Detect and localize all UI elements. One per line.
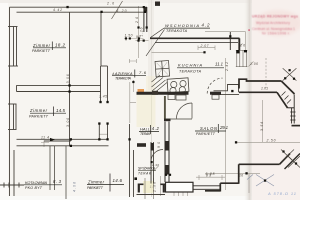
black square window bar left: [236, 50, 239, 53]
X column bottom right 2: [288, 156, 300, 168]
paper background: [0, 0, 300, 200]
door jambs hall verticals: [99, 124, 107, 140]
svg-text:PARKIETT: PARKIETT: [32, 49, 51, 53]
center wall pair top: [143, 7, 145, 32]
dim line top right: [205, 32, 245, 50]
dot cabinet line: [203, 51, 205, 53]
stepped wall B: [238, 164, 240, 184]
svg-text:TERAKOTA: TERAKOTA: [179, 69, 202, 73]
dot X top b: [293, 78, 295, 80]
dot corridor r b: [70, 145, 72, 147]
boiler room ticks: [41, 141, 49, 148]
door jamb right bottom: [163, 184, 165, 193]
svg-text:7.6: 7.6: [139, 70, 147, 75]
bay diagonal bottom upper: [280, 154, 291, 165]
kitchen door arc: [177, 103, 193, 119]
black square window bar right: [244, 50, 247, 52]
dot line B right: [144, 11, 146, 13]
svg-text:TERAK.: TERAK.: [140, 132, 151, 136]
dot jamb bl: [98, 138, 100, 140]
svg-text:11 4: 11 4: [41, 136, 49, 140]
dot room1 bottom b: [68, 90, 70, 92]
svg-text:PARKIETT: PARKIETT: [29, 114, 49, 118]
stepped wall C: [220, 182, 238, 184]
ticks under salon wall: [174, 193, 188, 197]
right page pinkish tint: [252, 0, 300, 200]
stepped wall A: [239, 163, 280, 165]
dot spiz: [134, 177, 137, 180]
closet mid tick: [99, 133, 107, 135]
door jamb right top tick: [161, 183, 166, 185]
svg-text:11.1: 11.1: [215, 62, 223, 67]
salon west wall: [165, 122, 169, 183]
kitchen door leaf: [191, 103, 193, 119]
dot jamb tr: [106, 122, 108, 124]
svg-text:16: 16: [240, 44, 245, 48]
left wall inner hatch lines: [14, 27, 17, 67]
dot salon wall b: [169, 174, 171, 176]
room1/2 dividing wall right: [69, 12, 71, 146]
svg-text:SPIŻARKA: SPIŻARKA: [138, 167, 156, 171]
dot pencil x: [264, 179, 266, 181]
kitchen door corner block: [164, 119, 171, 122]
svg-text:URZĄD REJONOWY wgs: URZĄD REJONOWY wgs: [252, 15, 298, 19]
boiler room label: [24, 179, 62, 190]
svg-text:18.2: 18.2: [55, 42, 66, 47]
svg-text:4.2: 4.2: [202, 22, 211, 27]
yellow wash door bottom: [143, 181, 154, 193]
svg-text:14.: 14.: [150, 185, 156, 189]
dot ext 27: [137, 26, 139, 28]
corridor wall lower: [17, 145, 109, 147]
svg-text:SALON: SALON: [200, 126, 217, 131]
svg-text:2.07: 2.07: [200, 44, 209, 48]
svg-text:HALL: HALL: [140, 127, 150, 132]
dot wall 27: [146, 26, 148, 28]
salon south wall outline: [166, 182, 194, 192]
svg-text:PARKIETT: PARKIETT: [196, 132, 216, 136]
dot wall 40: [143, 40, 145, 42]
dim cluster line 1.50: [124, 36, 144, 41]
hall/salon wall pair: [151, 142, 154, 184]
window bar top right verticals: [237, 50, 247, 67]
closet jog tick: [101, 65, 108, 67]
paper top band: [0, 0, 300, 3]
red speck: [248, 29, 250, 31]
door sill bottom: [137, 194, 166, 196]
paper left margin lighter: [0, 0, 8, 200]
kitchen doorway west wall: [164, 96, 166, 119]
svg-text:TERAKOTA: TERAKOTA: [115, 76, 132, 80]
svg-text:4.20: 4.20: [117, 9, 127, 13]
left window tick room2 bottom: [8, 129, 17, 131]
svg-text:3.54: 3.54: [260, 122, 264, 131]
salon west wall black fill 1: [165, 141, 169, 151]
dot wall top: [143, 6, 145, 8]
pencil tick bottom: [247, 175, 253, 180]
svg-text:Zimmer: Zimmer: [32, 43, 51, 48]
svg-text:16: 16: [239, 174, 243, 178]
kitchen door sill: [166, 118, 192, 120]
svg-text:PARKIETT: PARKIETT: [87, 186, 104, 190]
left window tick room2 top: [8, 103, 17, 105]
left window tick bottom: [8, 65, 18, 67]
left wall double lower: [13, 150, 15, 196]
paper bottom band: [0, 196, 300, 200]
yellow wash kitchen left: [146, 76, 155, 92]
wall corner vertical right: [238, 38, 240, 50]
svg-text:Nr 1584/1996 r.: Nr 1584/1996 r.: [262, 32, 290, 36]
top wall line B: [17, 11, 147, 13]
dot cluster a: [125, 37, 127, 39]
stove box: [167, 78, 189, 93]
dim vertical 3.54: [262, 100, 264, 142]
svg-text:2.50: 2.50: [266, 139, 276, 143]
hall wall black fill: [150, 143, 153, 151]
bay diagonal lower: [277, 92, 288, 108]
counter bar: [137, 92, 189, 95]
dim extension kitchen left: [130, 80, 134, 123]
closet wall lower vertical: [107, 66, 109, 102]
hall door black bar: [137, 143, 146, 147]
svg-text:4.42: 4.42: [53, 8, 62, 12]
stepped wall E: [205, 190, 220, 192]
svg-text:3.06: 3.06: [66, 74, 70, 83]
cabinet rect 3: [212, 95, 219, 99]
boiler room right wall: [65, 146, 67, 199]
hall label: [139, 125, 159, 136]
dim 4.20 diagonal: [112, 1, 127, 19]
svg-text:TERAKOTA: TERAKOTA: [166, 29, 188, 33]
svg-text:1.30: 1.30: [152, 163, 159, 167]
svg-text:4.06: 4.06: [72, 182, 76, 192]
dim line 3.88: [196, 175, 225, 180]
dot X bottom a: [282, 150, 284, 152]
dot jamb tl: [98, 122, 100, 124]
dim tick 1.00: [249, 62, 254, 67]
top wall line A: [10, 6, 148, 8]
dot closet a: [99, 101, 101, 103]
X column top right: [283, 68, 297, 80]
boiler room inner verticals: [50, 146, 55, 190]
svg-text:KUCHNIA: KUCHNIA: [178, 63, 202, 68]
bathroom dim tick: [129, 59, 136, 63]
svg-text:Wydział Architektury: Wydział Architektury: [256, 21, 290, 25]
room3 label Zimmer: [87, 174, 124, 192]
wall stub above window: [229, 32, 231, 50]
dim extension salon left: [159, 176, 161, 196]
dot line B left: [100, 11, 102, 13]
dot salon wall a: [165, 174, 167, 176]
salon label: [195, 124, 229, 136]
dot jamb br: [106, 138, 108, 140]
room2 label Zimmer: [29, 107, 66, 119]
svg-text:Centrum ul. Nowogrodzka 1: Centrum ul. Nowogrodzka 1: [252, 27, 295, 31]
svg-text:14.6: 14.6: [113, 178, 123, 183]
wall tick 40: [136, 40, 149, 42]
svg-text:89: 89: [206, 173, 211, 177]
pencil X bottom: [256, 175, 274, 187]
bay diagonal upper: [281, 81, 294, 94]
svg-text:90: 90: [136, 35, 141, 39]
boiler window ticks: [4, 183, 19, 188]
hall door arc: [151, 150, 163, 162]
fold shadow: [244, 0, 254, 200]
sink corner dark blob: [152, 91, 158, 95]
svg-text:Zimmer: Zimmer: [87, 179, 105, 184]
svg-text:4.2: 4.2: [152, 126, 160, 131]
room1 bottom wall upper: [17, 84, 101, 86]
larder diagonal hatch: [152, 75, 168, 92]
dot cluster b: [129, 37, 131, 39]
main top wall lower edge: [155, 42, 238, 44]
hall ext tick: [130, 102, 137, 104]
kitchen label: [177, 62, 224, 74]
window bar ticks: [236, 50, 248, 66]
bay window tick marks: [290, 112, 295, 120]
bay diagonal bottom lower: [285, 154, 301, 170]
bay notch: [288, 107, 294, 109]
salon west wall black fill 2: [165, 165, 169, 175]
dashed pantry line: [265, 58, 267, 88]
svg-text:14.5: 14.5: [56, 108, 66, 113]
svg-text:29.1: 29.1: [219, 125, 229, 130]
svg-text:1.00: 1.00: [250, 62, 258, 66]
small room thin verticals: [145, 178, 154, 199]
dot room1 bottom a: [68, 84, 70, 86]
svg-text:1.45: 1.45: [99, 94, 107, 98]
bay window hatch diagonals: [282, 92, 292, 104]
svg-text:A 578-D 11: A 578-D 11: [267, 191, 296, 196]
room1 bottom wall connector: [16, 85, 18, 91]
cabinet front line kitchen: [152, 51, 206, 53]
door jamb left bottom: [138, 184, 140, 193]
dot corridor r a: [70, 138, 72, 140]
svg-text:ŁAZIENKA: ŁAZIENKA: [113, 72, 133, 76]
door arrow triangle: [50, 138, 55, 141]
pantry label small: [138, 167, 156, 176]
dim extension line left of wall: [138, 6, 140, 58]
corridor wall upper: [17, 138, 109, 140]
north room label: [146, 22, 210, 56]
svg-text:PKO BYT: PKO BYT: [25, 186, 43, 190]
dot X bottom b: [295, 162, 297, 164]
fridge box: [155, 61, 170, 77]
dot ext 40: [137, 40, 139, 42]
cabinet rect 1: [168, 95, 175, 100]
hall east wall pair: [130, 124, 134, 197]
dim tick 16 top: [239, 44, 243, 48]
svg-text:2.42: 2.42: [225, 62, 229, 72]
room1 bottom wall lower: [17, 91, 101, 93]
dim vertical right salon: [225, 58, 227, 190]
svg-text:KOTŁOWNIA: KOTŁOWNIA: [25, 181, 47, 185]
top black wall stub rect: [155, 2, 160, 6]
dim line bottom right 89: [205, 172, 260, 174]
salon south window lines: [193, 186, 221, 190]
dim extension bottom right: [248, 174, 250, 193]
orange marker blob counter: [138, 89, 145, 92]
dot X top a: [289, 69, 291, 71]
bathroom label: [112, 70, 147, 81]
dot hall south: [151, 161, 153, 163]
left outer wall: [9, 7, 11, 196]
svg-text:Zimmer: Zimmer: [29, 108, 48, 113]
center wall black fill: [144, 7, 147, 12]
X column bottom right 1: [281, 150, 294, 163]
svg-text:1.50: 1.50: [125, 33, 133, 37]
dot hall wall: [128, 138, 130, 140]
stepped wall D: [219, 183, 221, 191]
counter under line: [214, 94, 240, 96]
svg-text:3.06: 3.06: [66, 118, 70, 127]
svg-text:WSCHODNIA: WSCHODNIA: [165, 23, 199, 28]
counter step lines: [214, 85, 239, 93]
dot cluster c: [138, 37, 140, 39]
bay window verticals right: [292, 95, 295, 124]
left window tick top: [8, 26, 18, 28]
paper crease center: [151, 0, 152, 197]
corridor wall upper second: [44, 140, 71, 142]
counter bar right seg: [210, 92, 221, 95]
dim line 2.50: [236, 141, 300, 143]
dot closet b: [106, 101, 108, 103]
cabinet rect 2: [176, 95, 186, 100]
door jamb left top tick: [138, 183, 144, 185]
closet wall upper vertical: [100, 12, 102, 66]
left wall inner hatch lines room2: [14, 104, 17, 130]
dashed door arc kitchen right: [207, 78, 222, 93]
main top wall kitchen: [150, 37, 240, 39]
kitchen east wall lower: [239, 91, 277, 93]
boiler room bottom wall: [0, 184, 24, 186]
room1 label Zimmer: [32, 42, 66, 53]
dim line kitchen 2.07: [198, 46, 215, 51]
svg-text:2.6: 2.6: [106, 2, 114, 6]
burner circles: [171, 81, 177, 87]
dim tick 1.30 salon: [154, 166, 159, 171]
dot top line: [66, 6, 68, 8]
closet left vertical stub: [100, 66, 102, 102]
dot window stub: [229, 35, 231, 37]
kitchen east wall upper: [239, 79, 281, 88]
svg-text:TERAK: TERAK: [138, 171, 152, 175]
dot dim 89: [245, 172, 247, 174]
dot X top c: [284, 77, 286, 79]
svg-text:1.01: 1.01: [261, 86, 268, 90]
pink stamp bleed: [254, 10, 302, 36]
yellow marker wash kitchen strip: [137, 92, 156, 127]
svg-text:8.3: 8.3: [53, 179, 62, 184]
dot counter step: [231, 90, 233, 92]
dot kitchen ext: [132, 81, 134, 83]
dot dim 250: [235, 141, 237, 143]
bay wall exit right: [292, 125, 301, 127]
